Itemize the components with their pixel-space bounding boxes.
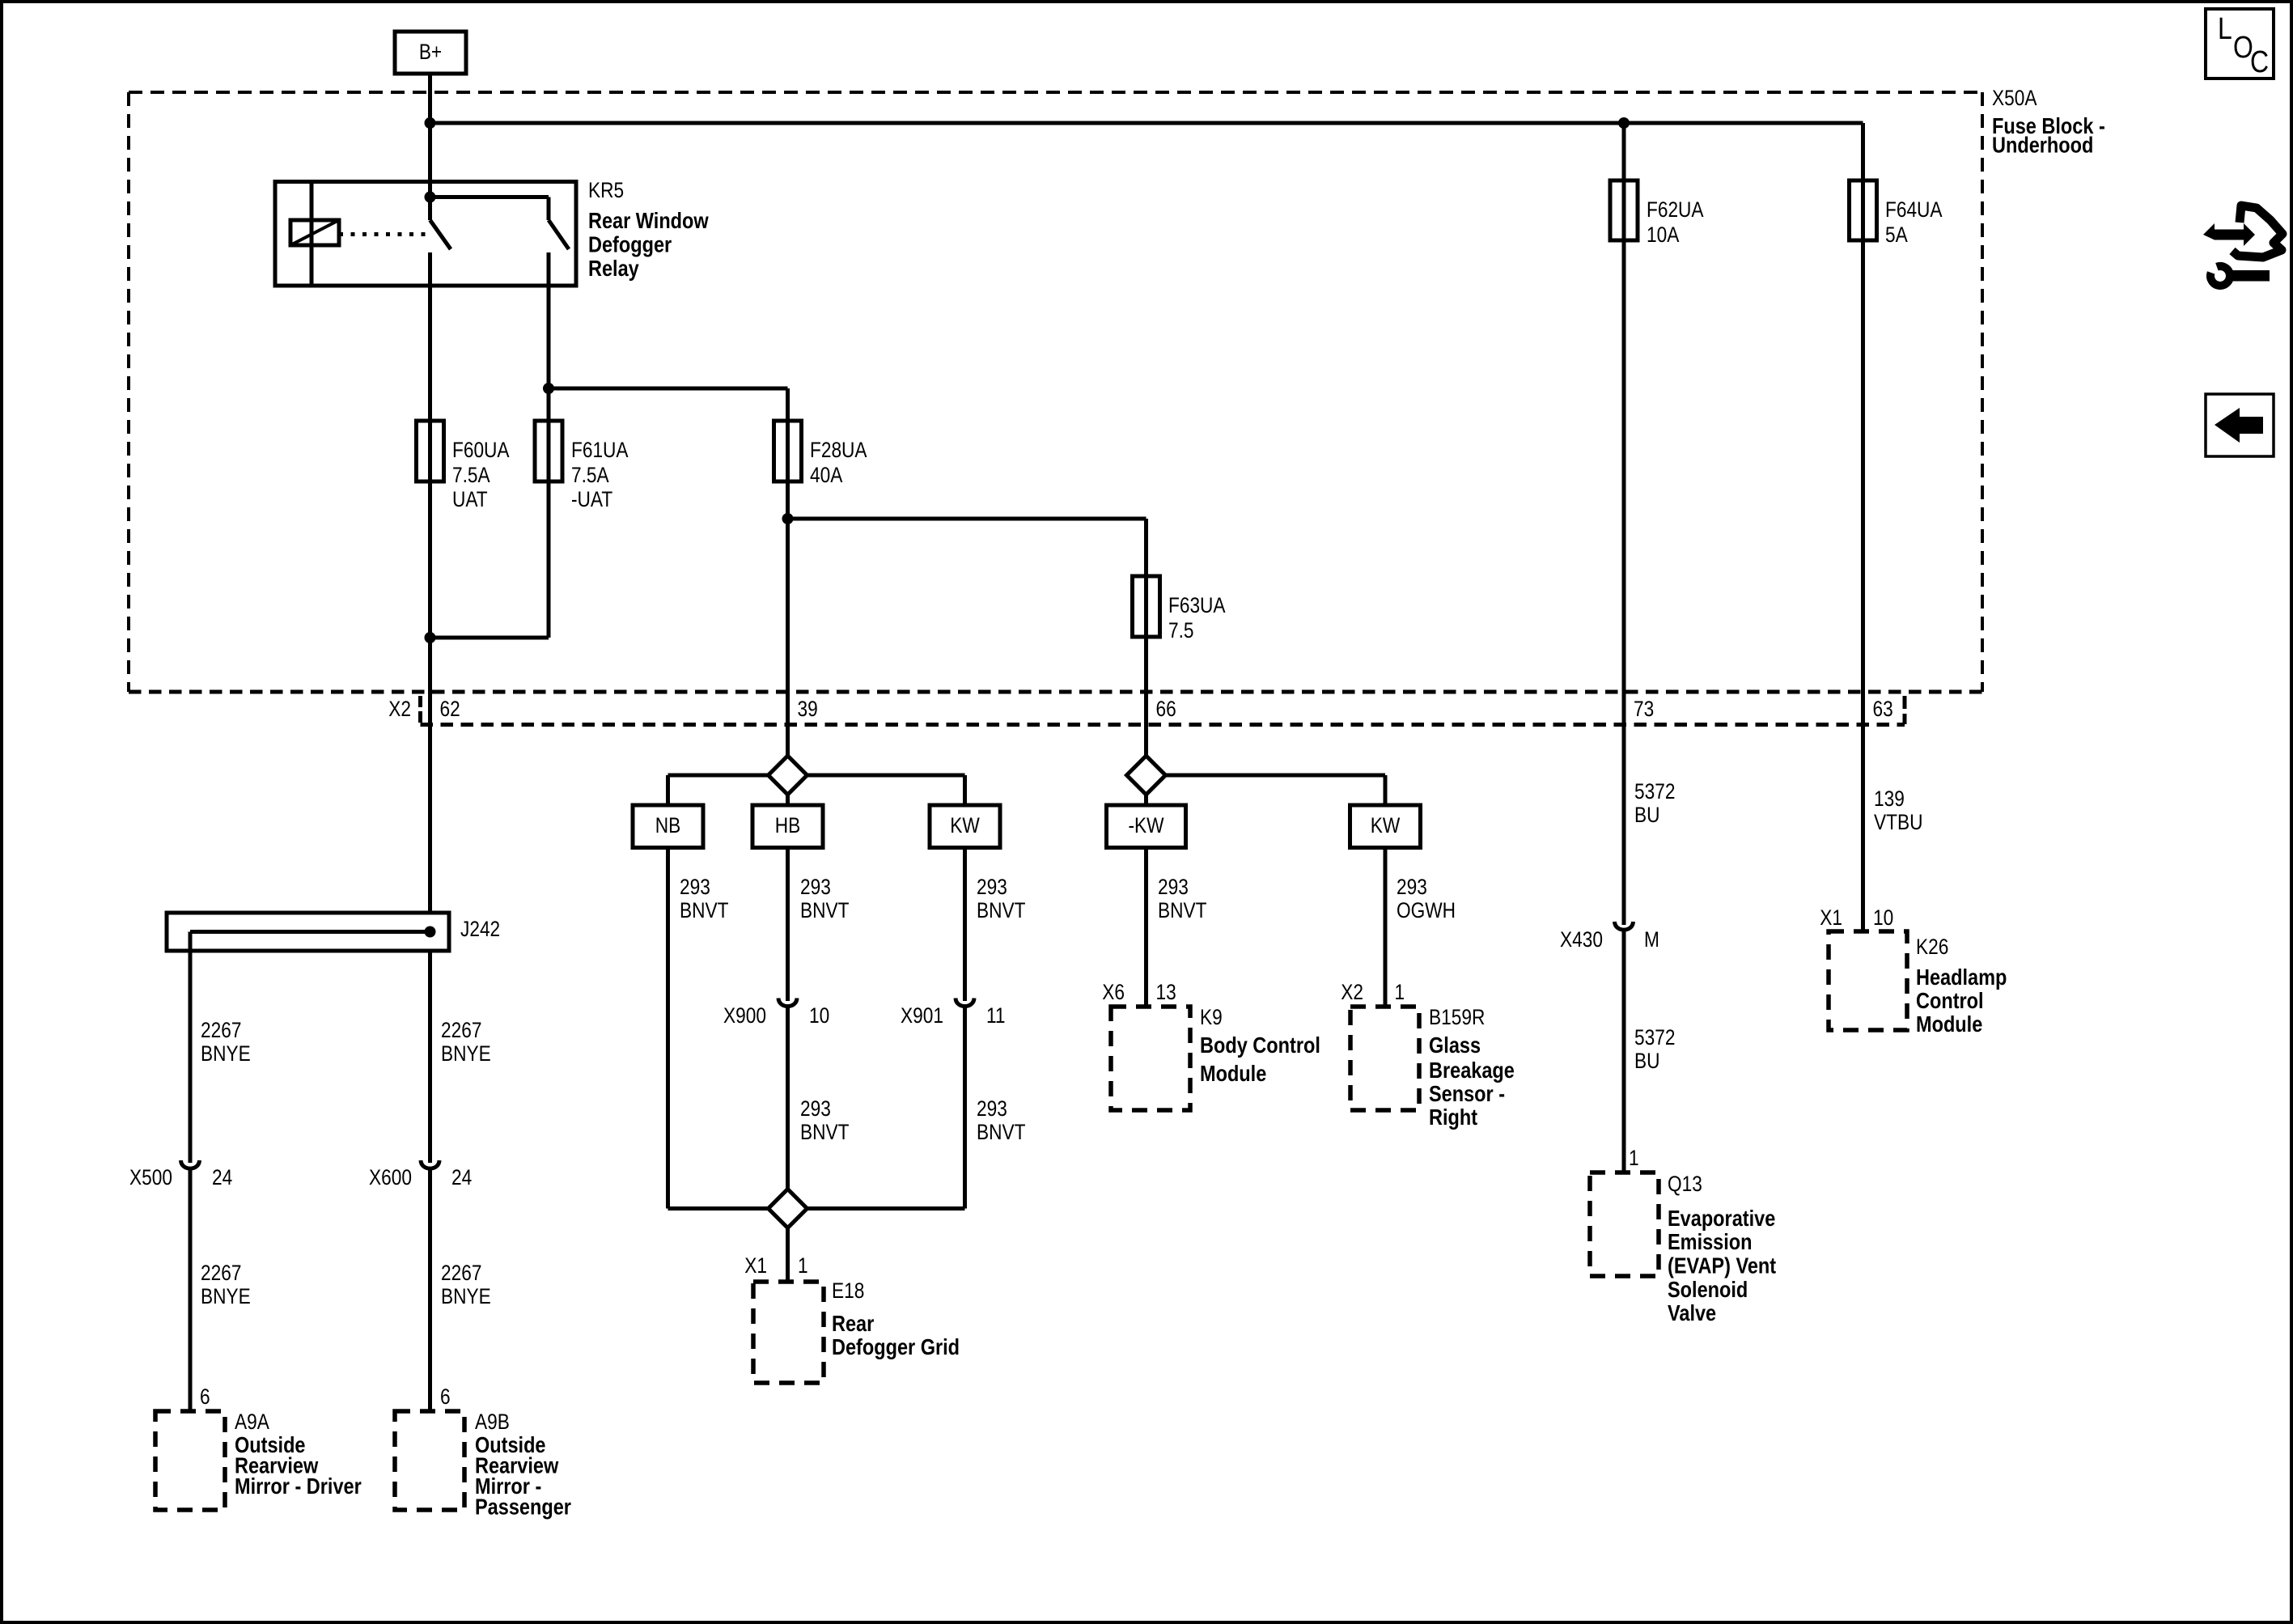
svg-text:293: 293 xyxy=(800,875,831,899)
svg-text:293: 293 xyxy=(977,875,1007,899)
svg-text:F62UA: F62UA xyxy=(1647,197,1704,222)
wire 293 BNVT from X901 to lower splice xyxy=(807,1006,965,1209)
svg-text:M: M xyxy=(1644,927,1659,952)
fuse block X50A dashed boundary xyxy=(129,92,1982,692)
pin 63 label xyxy=(1873,697,1893,721)
pin 62 label xyxy=(440,697,460,721)
label circuit 293 BNVT below X901 xyxy=(977,1096,1025,1144)
wire: feed to fuse F63UA xyxy=(788,519,1146,637)
svg-text:X500: X500 xyxy=(129,1165,172,1189)
svg-text:-UAT: -UAT xyxy=(571,487,612,511)
svg-text:Headlamp: Headlamp xyxy=(1916,965,2007,990)
relay KR5 coil xyxy=(290,220,339,245)
svg-text:C: C xyxy=(2250,45,2269,78)
connector X2 right bracket xyxy=(1903,696,1907,724)
wire: F28UA output to pin 39 xyxy=(786,481,790,757)
wire 2267 BNYE from J242 to connector X600 xyxy=(428,951,432,1163)
svg-text:Mirror - Driver: Mirror - Driver xyxy=(235,1474,362,1499)
svg-text:293: 293 xyxy=(977,1096,1007,1121)
svg-text:BNYE: BNYE xyxy=(201,1284,251,1308)
svg-text:Relay: Relay xyxy=(588,257,639,281)
label circuit 293 BNVT below X900 xyxy=(800,1096,849,1144)
svg-text:BNVT: BNVT xyxy=(1158,898,1206,922)
splice diamond above E18 xyxy=(769,1189,807,1228)
label circuit 293 BNVT at HB xyxy=(800,875,849,922)
svg-text:X1: X1 xyxy=(1820,905,1842,930)
label circuit 2267 BNYE driver upper xyxy=(201,1018,251,1066)
svg-text:Module: Module xyxy=(1200,1062,1266,1086)
label X50A Fuse Block - Underhood xyxy=(1992,86,2105,158)
svg-text:1: 1 xyxy=(798,1253,808,1278)
svg-text:Breakage: Breakage xyxy=(1429,1058,1515,1083)
wire 5372 BU from X430 to EVAP valve xyxy=(1622,930,1626,1172)
node: J242 junction xyxy=(425,926,436,938)
svg-text:X2: X2 xyxy=(1341,980,1363,1004)
svg-text:73: 73 xyxy=(1634,697,1654,721)
svg-text:F60UA: F60UA xyxy=(452,438,510,462)
wire: feed to fuse F28UA xyxy=(549,388,788,481)
svg-text:11: 11 xyxy=(986,1003,1006,1028)
svg-text:10A: 10A xyxy=(1647,223,1680,247)
svg-text:293: 293 xyxy=(1397,875,1427,899)
svg-text:2267: 2267 xyxy=(441,1261,481,1285)
svg-text:B+: B+ xyxy=(419,40,442,64)
svg-text:63: 63 xyxy=(1873,697,1893,721)
svg-text:Body Control: Body Control xyxy=(1200,1033,1320,1058)
svg-text:NB: NB xyxy=(655,813,680,837)
svg-text:Passenger: Passenger xyxy=(475,1495,571,1520)
component B159R Glass Breakage Sensor - Right xyxy=(1350,1005,1515,1130)
svg-text:1: 1 xyxy=(1395,980,1405,1004)
back arrow icon xyxy=(2206,394,2274,456)
pin 6 label at A9A xyxy=(200,1384,210,1409)
label circuit 2267 BNYE driver lower xyxy=(201,1261,251,1308)
svg-text:7.5A: 7.5A xyxy=(452,463,490,487)
wire 293 BNVT from -KW to body control module xyxy=(1144,848,1148,1007)
svg-text:Defogger: Defogger xyxy=(588,233,672,257)
component E18 Rear Defogger Grid xyxy=(753,1278,960,1383)
svg-text:Right: Right xyxy=(1429,1105,1477,1130)
svg-text:24: 24 xyxy=(212,1165,232,1189)
svg-text:X600: X600 xyxy=(369,1165,412,1189)
label circuit 5372 BU upper xyxy=(1634,779,1675,827)
svg-text:X50A: X50A xyxy=(1992,86,2037,110)
inline connector X430 pin M xyxy=(1560,922,1659,952)
svg-text:B159R: B159R xyxy=(1429,1005,1485,1029)
svg-text:Q13: Q13 xyxy=(1668,1172,1702,1196)
svg-text:HB: HB xyxy=(775,813,800,837)
terminal HB xyxy=(752,805,823,848)
wire 293 BNVT from X900 to lower splice xyxy=(786,1006,790,1189)
svg-text:5A: 5A xyxy=(1885,223,1908,247)
svg-text:5372: 5372 xyxy=(1634,779,1675,804)
splice pack J242 xyxy=(167,913,449,951)
component A9B Outside Rearview Mirror - Passenger xyxy=(395,1410,571,1520)
fuse F63UA 7.5 xyxy=(1133,576,1226,642)
node: F63UA feed junction xyxy=(782,513,794,524)
component A9A Outside Rearview Mirror - Driver xyxy=(155,1410,362,1510)
connector X2 left bracket xyxy=(418,696,422,723)
label circuit 2267 BNYE passenger lower xyxy=(441,1261,491,1308)
pin 1 label at Q13 xyxy=(1629,1146,1639,1170)
svg-text:BNVT: BNVT xyxy=(800,1120,849,1144)
terminal NB xyxy=(633,805,703,848)
svg-text:2267: 2267 xyxy=(201,1018,241,1042)
wire 2267 BNYE from pin 62 to splice pack J242 xyxy=(428,721,432,914)
node: F28UA feed junction xyxy=(543,383,554,394)
relay KR5 contact 2 blade xyxy=(549,220,569,249)
fuse F64UA 5A xyxy=(1850,180,1943,247)
svg-text:BNVT: BNVT xyxy=(977,1120,1025,1144)
splice diamond under pin 66 xyxy=(1127,721,1166,795)
svg-text:7.5A: 7.5A xyxy=(571,463,609,487)
svg-text:BNYE: BNYE xyxy=(201,1041,251,1066)
svg-text:BNVT: BNVT xyxy=(680,898,728,922)
node: battery bus at B+ wire xyxy=(425,117,436,129)
svg-text:X900: X900 xyxy=(723,1003,766,1028)
inline connector X900 pin 10 xyxy=(723,999,829,1028)
node: battery bus at fuse F62UA xyxy=(1618,117,1630,129)
pin 66 label xyxy=(1156,697,1176,721)
relay KR5 outline xyxy=(275,182,576,286)
wire: relay contact 1 to fuse F60UA and pin 62 xyxy=(428,252,432,729)
pin label X1 10 at K26 xyxy=(1820,905,1893,930)
wire: F63UA output to pin 66 xyxy=(1144,637,1148,757)
svg-text:KW: KW xyxy=(1371,813,1401,837)
svg-text:K9: K9 xyxy=(1200,1005,1223,1029)
svg-text:J242: J242 xyxy=(460,917,500,941)
svg-text:X430: X430 xyxy=(1560,927,1603,952)
fuse F61UA 7.5A -UAT xyxy=(535,421,629,511)
wire 293 BNVT from NB to lower splice xyxy=(668,848,769,1209)
svg-text:10: 10 xyxy=(1873,905,1893,930)
splice diamond under pin 39 xyxy=(769,721,807,795)
wire: relay common to contact 2 xyxy=(430,197,549,221)
svg-text:40A: 40A xyxy=(810,463,843,487)
svg-text:Defogger Grid: Defogger Grid xyxy=(832,1335,960,1359)
fuse F62UA 10A xyxy=(1610,180,1704,247)
wire: splice to NB terminal xyxy=(668,775,769,805)
label J242 xyxy=(460,917,500,941)
component Q13 EVAP Vent Solenoid Valve xyxy=(1590,1172,1776,1325)
wire: battery bus to fuse F62UA and pin 73 xyxy=(1622,123,1626,925)
pin 39 label xyxy=(798,697,818,721)
wire 293 BNVT from KW to connector X901 xyxy=(963,848,967,1002)
svg-text:13: 13 xyxy=(1156,980,1176,1004)
fuse F60UA 7.5A UAT xyxy=(417,421,510,511)
svg-text:Rear Window: Rear Window xyxy=(588,209,709,233)
fuse F28UA 40A xyxy=(774,421,867,487)
svg-text:X6: X6 xyxy=(1102,980,1125,1004)
relay KR5 contact 1 blade xyxy=(430,220,451,249)
terminal -KW xyxy=(1107,805,1186,848)
component K26 Headlamp Control Module xyxy=(1829,931,2007,1037)
svg-text:62: 62 xyxy=(440,697,460,721)
svg-text:Underhood: Underhood xyxy=(1992,134,2093,158)
svg-text:7.5: 7.5 xyxy=(1168,618,1194,642)
svg-text:BNVT: BNVT xyxy=(977,898,1025,922)
connector X2 row upper dashed line xyxy=(129,690,1982,694)
svg-text:Glass: Glass xyxy=(1429,1033,1481,1058)
svg-text:Valve: Valve xyxy=(1668,1301,1716,1325)
wire 2267 BNYE to connector X500 xyxy=(189,932,193,1164)
label circuit 139 VTBU xyxy=(1874,787,1922,834)
relay KR5 control dotted link xyxy=(339,232,426,236)
svg-text:L: L xyxy=(2218,11,2232,45)
wire: B+ down to relay KR5 common xyxy=(428,74,432,220)
label circuit 293 BNVT at KW xyxy=(977,875,1025,922)
node: relay common junction xyxy=(425,192,436,203)
svg-text:Emission: Emission xyxy=(1668,1230,1753,1254)
svg-text:X2: X2 xyxy=(388,697,411,721)
wire: splice to right KW terminal xyxy=(1166,775,1386,805)
svg-text:Rear: Rear xyxy=(832,1312,874,1336)
wire 293 OGWH from KW to glass breakage sensor xyxy=(1384,848,1388,1007)
svg-text:BNYE: BNYE xyxy=(441,1284,491,1308)
svg-text:KR5: KR5 xyxy=(588,178,624,202)
svg-text:BU: BU xyxy=(1634,1049,1659,1073)
wire: splice to HB terminal xyxy=(786,795,790,805)
svg-text:VTBU: VTBU xyxy=(1874,810,1922,834)
label circuit 293 BNVT at -KW xyxy=(1158,875,1206,922)
wire 293 BNVT from HB to connector X900 xyxy=(786,848,790,1002)
wire 2267 BNYE to mirror A9A xyxy=(189,1168,193,1411)
svg-text:39: 39 xyxy=(798,697,818,721)
svg-text:6: 6 xyxy=(200,1384,210,1409)
pin label X6 13 at K9 xyxy=(1102,980,1176,1004)
svg-text:BNYE: BNYE xyxy=(441,1041,491,1066)
terminal KW xyxy=(930,805,1000,848)
label circuit 293 OGWH xyxy=(1397,875,1456,922)
svg-text:10: 10 xyxy=(809,1003,829,1028)
wire: splice to KW terminal xyxy=(807,775,965,805)
svg-text:F64UA: F64UA xyxy=(1885,197,1943,222)
svg-text:24: 24 xyxy=(451,1165,472,1189)
label circuit 5372 BU lower xyxy=(1634,1025,1675,1073)
wire 2267 BNYE to mirror A9B xyxy=(428,1168,432,1411)
svg-text:Sensor -: Sensor - xyxy=(1429,1082,1505,1106)
svg-text:5372: 5372 xyxy=(1634,1025,1675,1049)
inline connector X901 pin 11 xyxy=(901,999,1005,1028)
svg-text:2267: 2267 xyxy=(201,1261,241,1285)
power feed terminal B+ xyxy=(395,32,466,74)
svg-text:F28UA: F28UA xyxy=(810,438,867,462)
svg-text:F63UA: F63UA xyxy=(1168,593,1226,617)
svg-text:(EVAP) Vent: (EVAP) Vent xyxy=(1668,1254,1776,1278)
label KR5 Rear Window Defogger Relay xyxy=(588,178,709,281)
LOC legend icon xyxy=(2206,9,2274,79)
svg-text:-KW: -KW xyxy=(1128,813,1163,837)
inline connector X600 pin 24 xyxy=(369,1160,472,1189)
pin label X2 1 at B159R xyxy=(1341,980,1405,1004)
wire: relay contact 2 to fuse F61UA xyxy=(547,252,551,481)
svg-text:OGWH: OGWH xyxy=(1397,898,1456,922)
svg-text:293: 293 xyxy=(680,875,710,899)
pin 73 label xyxy=(1634,697,1654,721)
wire: splice to rear defogger grid E18 xyxy=(786,1228,790,1283)
wire: F61UA output joining F60UA output xyxy=(430,481,549,638)
terminal KW right xyxy=(1350,805,1421,848)
svg-text:Solenoid: Solenoid xyxy=(1668,1278,1748,1302)
inline connector X500 pin 24 xyxy=(129,1160,232,1189)
svg-text:293: 293 xyxy=(1158,875,1189,899)
svg-text:E18: E18 xyxy=(832,1278,864,1303)
pin 6 label at A9B xyxy=(440,1384,451,1409)
svg-text:KW: KW xyxy=(950,813,980,837)
connector X2 row lower dashed line xyxy=(421,723,1905,727)
svg-text:1: 1 xyxy=(1629,1146,1639,1170)
svg-text:K26: K26 xyxy=(1916,935,1948,959)
label circuit 293 BNVT at NB xyxy=(680,875,728,922)
svg-text:A9A: A9A xyxy=(235,1410,269,1434)
node: fuse outputs junction xyxy=(425,632,436,643)
svg-text:6: 6 xyxy=(440,1384,451,1409)
svg-text:Evaporative: Evaporative xyxy=(1668,1206,1775,1231)
svg-text:A9B: A9B xyxy=(475,1410,510,1434)
svg-text:139: 139 xyxy=(1874,787,1905,811)
svg-text:293: 293 xyxy=(800,1096,831,1121)
svg-text:X901: X901 xyxy=(901,1003,943,1028)
pin label X1 1 at E18 xyxy=(744,1253,807,1278)
svg-text:2267: 2267 xyxy=(441,1018,481,1042)
component K9 Body Control Module xyxy=(1111,1005,1320,1110)
svg-text:Control: Control xyxy=(1916,989,1984,1013)
relay KR5 coil branch line xyxy=(310,182,314,286)
svg-text:X1: X1 xyxy=(744,1253,767,1278)
svg-text:F61UA: F61UA xyxy=(571,438,629,462)
label circuit 2267 BNYE upper xyxy=(441,1018,491,1066)
svg-text:Module: Module xyxy=(1916,1012,1982,1037)
wire: splice to -KW terminal xyxy=(1144,795,1148,805)
svg-text:BNVT: BNVT xyxy=(800,898,849,922)
svg-text:BU: BU xyxy=(1634,803,1659,827)
label connector X2 xyxy=(388,697,411,721)
wire: battery bus corner to fuse F64UA and pin 63 xyxy=(1861,123,1865,931)
svg-text:66: 66 xyxy=(1156,697,1176,721)
harness routing icon xyxy=(2203,206,2282,286)
wire: battery feed bus xyxy=(430,121,1863,125)
svg-text:UAT: UAT xyxy=(452,487,488,511)
